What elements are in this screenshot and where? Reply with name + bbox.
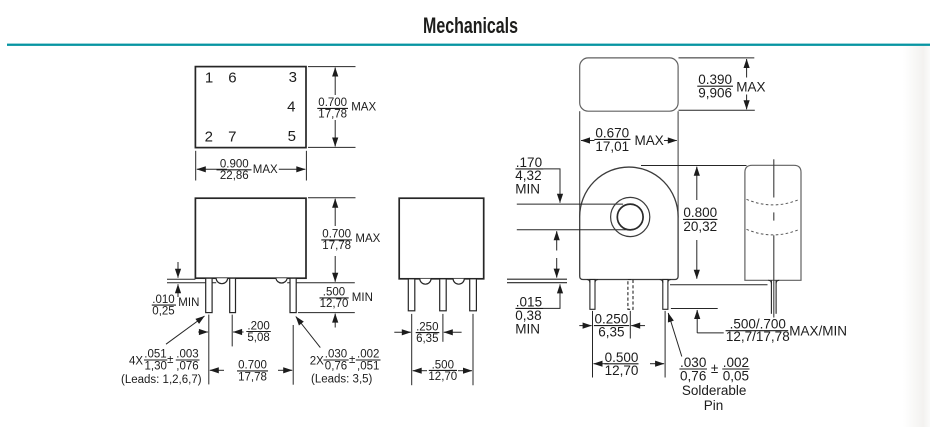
dim .250/6,35 arrows bbox=[394, 331, 411, 333]
dim 0.670 arrows bbox=[581, 140, 595, 142]
svg-text:(Leads: 1,2,6,7): (Leads: 1,2,6,7) bbox=[121, 374, 202, 386]
svg-text:MIN: MIN bbox=[352, 292, 373, 304]
svg-text:MAX: MAX bbox=[355, 233, 380, 245]
dim text 0.900/22,86 MAX bbox=[217, 158, 279, 182]
dim text .010/0,25 MIN bbox=[152, 294, 200, 318]
svg-text:.051: .051 bbox=[144, 349, 166, 361]
lead pin 3 bbox=[290, 278, 296, 312]
svg-text:Pin: Pin bbox=[704, 398, 724, 413]
leader arrow 4X label to pin 1 bbox=[166, 316, 205, 344]
dim line with arrows bbox=[197, 168, 227, 170]
extension lines below pins bbox=[411, 314, 413, 385]
dim 0.700/17,78 MAX (view1 height) extension lines bbox=[308, 66, 356, 68]
lead pin middle bbox=[440, 279, 447, 311]
svg-text:12,70: 12,70 bbox=[605, 363, 639, 378]
svg-text:.003: .003 bbox=[176, 349, 198, 361]
svg-text:0,76: 0,76 bbox=[680, 369, 706, 384]
leader .030 solderable pin bbox=[668, 313, 682, 357]
svg-text:0,76: 0,76 bbox=[325, 360, 347, 372]
dim text .500/12,70 MIN bbox=[320, 287, 373, 311]
front pin right bbox=[663, 280, 668, 310]
svg-text:MAX: MAX bbox=[635, 133, 664, 148]
svg-text:MIN: MIN bbox=[515, 182, 540, 197]
dim .500/12,70 MIN lower line bbox=[298, 312, 355, 314]
dim text 0.250/6,35 bbox=[594, 311, 629, 339]
dim 0.500/12,70 extension lines bbox=[592, 339, 594, 378]
hole outer circle bbox=[611, 197, 650, 236]
title Mechanicals bbox=[423, 13, 518, 38]
pin root fillets bbox=[587, 280, 598, 283]
lead pin 1 bbox=[206, 278, 212, 312]
lead pin left bbox=[408, 279, 415, 311]
svg-text:12,7/17,78: 12,7/17,78 bbox=[726, 329, 790, 344]
pin length reference line (upper) bbox=[670, 284, 768, 286]
svg-text:0.700: 0.700 bbox=[322, 229, 351, 241]
label .015/0,38 MIN bbox=[515, 294, 543, 336]
svg-text:2: 2 bbox=[205, 129, 213, 146]
dim text 0.500/12,70 bbox=[605, 350, 639, 378]
lead pin right bbox=[470, 279, 477, 311]
dim text 0.700/17,78 MAX (view2) bbox=[321, 229, 380, 252]
svg-text:1,30: 1,30 bbox=[145, 360, 167, 372]
dim text .500/.700 / 12,7/17,78 MAX/MIN bbox=[726, 316, 847, 343]
leader .170 bbox=[544, 169, 560, 190]
dim 0.700/17,78 (lead span) extension lines bbox=[208, 356, 210, 385]
dim 0.500 arrows bbox=[594, 363, 609, 365]
arrow down to body bottom bbox=[556, 258, 558, 278]
dim 0.900/22,86 MAX (view1 width) extension lines bbox=[195, 151, 197, 181]
leader .500/.700 bbox=[696, 310, 698, 333]
svg-text:0.700: 0.700 bbox=[238, 360, 267, 372]
svg-text:22,86: 22,86 bbox=[220, 170, 249, 182]
seating plane line right bbox=[287, 282, 355, 284]
dim text 0.700/17,78 (lead span) bbox=[237, 360, 268, 384]
leader arrow 2X label to pin 3 bbox=[296, 317, 321, 348]
svg-text:MIN: MIN bbox=[515, 321, 540, 336]
standoff bump left bbox=[420, 279, 431, 284]
svg-text:17,78: 17,78 bbox=[318, 109, 347, 121]
svg-text:7: 7 bbox=[228, 129, 236, 146]
svg-text:17,78: 17,78 bbox=[238, 371, 267, 383]
pin length reference line (lower) bbox=[671, 308, 718, 310]
svg-text:6,35: 6,35 bbox=[598, 325, 624, 340]
body outline side view bbox=[745, 165, 801, 280]
seating plane line left bbox=[167, 278, 195, 280]
svg-text:9,906: 9,906 bbox=[698, 85, 732, 100]
body outline side view bbox=[195, 198, 306, 278]
svg-text:,076: ,076 bbox=[176, 360, 198, 372]
svg-text:MAX: MAX bbox=[351, 101, 376, 113]
front pin left bbox=[590, 280, 595, 310]
label .170/4,32 MIN bbox=[515, 155, 543, 197]
body outline front view (dome) bbox=[580, 167, 678, 279]
svg-text:12,70: 12,70 bbox=[320, 298, 349, 310]
svg-text:17,78: 17,78 bbox=[322, 240, 351, 252]
svg-text:(Leads: 3,5): (Leads: 3,5) bbox=[311, 374, 373, 386]
standoff bump left bbox=[216, 278, 227, 284]
dim 0.800/20,32 extension line at dome top bbox=[641, 165, 747, 167]
dim 0.670/17,01 MAX side extension lines (also body sides of front view) bbox=[579, 111, 581, 217]
side view pin bbox=[770, 280, 772, 314]
centerline through side view bbox=[773, 159, 775, 197]
svg-text:.002: .002 bbox=[357, 349, 379, 361]
dim text 0.670/17,01 MAX bbox=[594, 125, 663, 154]
dim text .200/5,08 bbox=[246, 320, 270, 344]
svg-text:.200: .200 bbox=[247, 320, 269, 332]
dim .200/5,08 extension lines bbox=[208, 315, 210, 356]
dim .200 arrows bbox=[198, 331, 208, 333]
right page-edge shading bbox=[903, 46, 930, 427]
svg-text:±: ± bbox=[167, 354, 173, 366]
hidden hole curve upper (dashed) bbox=[747, 199, 800, 205]
label .030/0,76 +- .002/0,05 bbox=[679, 355, 749, 413]
hole tangent line lower bbox=[517, 229, 626, 231]
dim 0.800 line with arrows bbox=[696, 167, 698, 200]
svg-text:0,05: 0,05 bbox=[723, 369, 749, 384]
svg-text:5: 5 bbox=[288, 128, 296, 145]
dim text 0.390/9,906 MAX bbox=[697, 72, 765, 100]
svg-text:.010: .010 bbox=[152, 294, 174, 306]
svg-text:.030: .030 bbox=[325, 349, 347, 361]
teal header rule bbox=[7, 44, 930, 46]
dim text 0.800/20,32 bbox=[683, 205, 717, 234]
dim line with arrows bbox=[746, 59, 748, 78]
dim 0.700/17,78 MAX (view2 height) extension line bbox=[308, 197, 356, 199]
svg-text:3: 3 bbox=[289, 69, 297, 86]
lead pin 7 bbox=[230, 278, 236, 312]
body outline top view bbox=[195, 67, 306, 148]
svg-text:5,08: 5,08 bbox=[247, 332, 269, 344]
dim .010/0,25 MIN arrows bbox=[177, 262, 179, 278]
body outline top view rounded bbox=[580, 58, 678, 111]
dim 0.250 arrows bbox=[579, 325, 591, 327]
dim .500/12,70 arrows bbox=[413, 370, 427, 372]
dim line with arrows bbox=[334, 68, 336, 96]
svg-text:4X: 4X bbox=[129, 355, 143, 367]
svg-text:4: 4 bbox=[287, 98, 295, 115]
svg-text:MAX: MAX bbox=[253, 164, 278, 176]
svg-text:Mechanicals: Mechanicals bbox=[423, 13, 518, 38]
svg-text:0.700: 0.700 bbox=[318, 97, 347, 109]
svg-text:1: 1 bbox=[205, 70, 213, 87]
body outline end view bbox=[399, 198, 484, 279]
svg-text:.250: .250 bbox=[416, 321, 438, 333]
svg-text:0,25: 0,25 bbox=[152, 305, 174, 317]
svg-text:MIN: MIN bbox=[178, 297, 199, 309]
dim text 0.700/17,78 MAX bbox=[317, 97, 376, 120]
hole tangent line upper bbox=[517, 203, 623, 205]
dim text .500/12,70 bbox=[428, 359, 457, 383]
svg-text:.500: .500 bbox=[323, 287, 345, 299]
dim 0.700 arrows bbox=[210, 369, 224, 371]
svg-text:12,70: 12,70 bbox=[428, 371, 457, 383]
arrow up between lines bbox=[556, 231, 558, 250]
svg-text:6: 6 bbox=[228, 70, 236, 87]
arrow below pointing up bbox=[334, 314, 336, 328]
svg-text:Solderable: Solderable bbox=[682, 383, 747, 398]
leader .015 bbox=[544, 300, 560, 308]
dim text .250/6,35 bbox=[416, 321, 440, 345]
dim 0.390/9,906 MAX extension lines bbox=[679, 57, 755, 59]
seating plane double line bbox=[507, 278, 567, 280]
svg-text:6,35: 6,35 bbox=[416, 333, 438, 345]
svg-text:20,32: 20,32 bbox=[683, 219, 717, 234]
standoff bump right bbox=[453, 279, 464, 284]
svg-text:±: ± bbox=[711, 361, 718, 376]
svg-text:±: ± bbox=[349, 354, 355, 366]
dim 0.250/6,35 extension lines (front pins) bbox=[592, 311, 594, 339]
label 2X .030/0,76 +- .002/,051 bbox=[310, 349, 381, 386]
standoff bump right bbox=[276, 278, 287, 283]
hidden hole curve lower (dashed) bbox=[747, 229, 800, 235]
svg-text:.500: .500 bbox=[432, 359, 454, 371]
svg-text:17,01: 17,01 bbox=[595, 139, 629, 154]
svg-text:,051: ,051 bbox=[357, 360, 379, 372]
front pin middle (hidden, dashed) bbox=[628, 280, 633, 310]
svg-text:0.900: 0.900 bbox=[220, 158, 249, 170]
svg-text:MAX/MIN: MAX/MIN bbox=[789, 323, 847, 338]
hole inner circle bbox=[617, 204, 643, 230]
pin root fillets side view bbox=[768, 280, 779, 283]
svg-text:MAX: MAX bbox=[736, 80, 765, 95]
dim line with arrows bbox=[334, 199, 336, 226]
label 4X .051/1,30 +- .003/,076 bbox=[121, 349, 202, 387]
svg-text:2X: 2X bbox=[310, 355, 324, 367]
